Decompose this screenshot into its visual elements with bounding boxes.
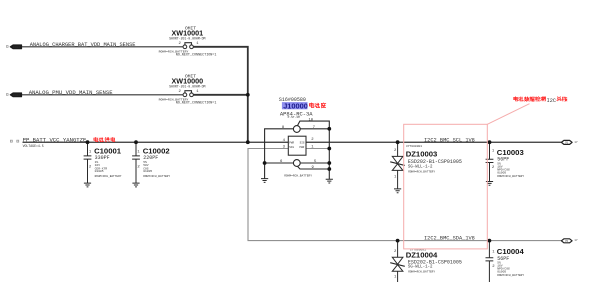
svg-text:ROHM=RCH_BATTERY: ROHM=RCH_BATTERY xyxy=(497,175,524,178)
svg-text:1: 1 xyxy=(394,176,397,180)
svg-text:01005: 01005 xyxy=(143,170,152,173)
svg-text:SHORT-201-0.0OHM-DM: SHORT-201-0.0OHM-DM xyxy=(169,37,205,41)
svg-text:10: 10 xyxy=(308,118,313,122)
svg-text:PP_BATT_VCC_YANGTZE: PP_BATT_VCC_YANGTZE xyxy=(23,137,87,144)
svg-text:76: 76 xyxy=(565,240,569,243)
svg-text:SG-WLL-1-2: SG-WLL-1-2 xyxy=(408,165,433,169)
svg-text:37T000001: 37T000001 xyxy=(406,145,422,148)
svg-text:01005: 01005 xyxy=(497,271,506,274)
svg-text:NO_NEXT_CONNECTION=1: NO_NEXT_CONNECTION=1 xyxy=(176,102,217,106)
svg-text:P-ST-3M: P-ST-3M xyxy=(288,116,300,119)
svg-text:SHORT-201-0.0OHM-DM: SHORT-201-0.0OHM-DM xyxy=(169,85,205,89)
svg-text:J10000: J10000 xyxy=(283,102,308,111)
svg-text:C10004: C10004 xyxy=(497,247,525,256)
svg-text:01005: 01005 xyxy=(95,170,104,173)
svg-text:ROHM=RCH_BATTERY: ROHM=RCH_BATTERY xyxy=(143,175,170,178)
svg-text:VOLTAGE=4.5: VOLTAGE=4.5 xyxy=(23,144,44,148)
svg-text:2: 2 xyxy=(394,149,397,153)
svg-text:ESD202-B1-CSP01005: ESD202-B1-CSP01005 xyxy=(408,159,462,165)
svg-text:PWR: PWR xyxy=(299,146,304,149)
svg-text:ESD202-B1-CSP01005: ESD202-B1-CSP01005 xyxy=(408,259,462,265)
svg-text:9: 9 xyxy=(312,166,315,170)
svg-text:17: 17 xyxy=(574,239,578,242)
svg-text:I2C2_BMC_SDA_1V8: I2C2_BMC_SDA_1V8 xyxy=(424,236,475,242)
svg-text:C10003: C10003 xyxy=(497,148,524,157)
svg-text:1: 1 xyxy=(196,90,199,94)
svg-text:17: 17 xyxy=(574,141,578,144)
svg-text:ROHM=RCH_BATTERY: ROHM=RCH_BATTERY xyxy=(497,274,524,277)
svg-text:C10001: C10001 xyxy=(94,146,122,155)
svg-text:ANALOG_CHARGER_BAT_VDD_MAIN_SE: ANALOG_CHARGER_BAT_VDD_MAIN_SENSE xyxy=(30,42,136,48)
svg-text:ANALOG_PMU_VDD_MAIN_SENSE: ANALOG_PMU_VDD_MAIN_SENSE xyxy=(29,89,114,96)
svg-text:SIG: SIG xyxy=(289,146,294,149)
svg-text:0402: 0402 xyxy=(13,46,20,49)
svg-text:2: 2 xyxy=(179,42,182,46)
svg-text:1: 1 xyxy=(394,276,397,280)
svg-text:PWR: PWR xyxy=(289,142,294,145)
svg-text:ROHM=RCH_BATTERY: ROHM=RCH_BATTERY xyxy=(284,174,312,177)
svg-text:76: 76 xyxy=(565,142,569,145)
svg-text:2: 2 xyxy=(492,265,495,269)
svg-text:ROHM=RCH_BATTERY: ROHM=RCH_BATTERY xyxy=(408,170,435,173)
svg-text:1: 1 xyxy=(492,149,495,153)
svg-text:2: 2 xyxy=(137,166,140,170)
svg-text:NO_NEXT_CONNECTION=1: NO_NEXT_CONNECTION=1 xyxy=(176,54,217,58)
svg-text:2: 2 xyxy=(492,166,495,170)
svg-text:I2C2_BMC_SCL_1V8: I2C2_BMC_SCL_1V8 xyxy=(424,137,475,143)
svg-text:01005: 01005 xyxy=(497,171,506,174)
svg-text:1: 1 xyxy=(196,42,199,46)
svg-text:0402: 0402 xyxy=(13,94,20,97)
svg-text:2: 2 xyxy=(89,166,92,170)
svg-text:2: 2 xyxy=(311,138,314,142)
svg-text:2: 2 xyxy=(179,90,182,94)
svg-text:DZ10004: DZ10004 xyxy=(406,250,438,259)
svg-text:DZ10003: DZ10003 xyxy=(406,150,438,159)
svg-text:ROHM=RCH_BATTERY: ROHM=RCH_BATTERY xyxy=(95,175,122,178)
svg-text:1: 1 xyxy=(89,151,92,155)
svg-text:2: 2 xyxy=(394,250,397,254)
svg-text:I2C: I2C xyxy=(547,98,556,104)
svg-text:1: 1 xyxy=(492,250,495,254)
svg-text:ROHM=RCH_BATTERY: ROHM=RCH_BATTERY xyxy=(408,271,435,274)
svg-text:C10002: C10002 xyxy=(143,146,170,155)
svg-text:SIG: SIG xyxy=(300,142,305,145)
svg-text:1: 1 xyxy=(137,151,140,155)
svg-text:SG-WLL-1-2: SG-WLL-1-2 xyxy=(408,266,433,270)
